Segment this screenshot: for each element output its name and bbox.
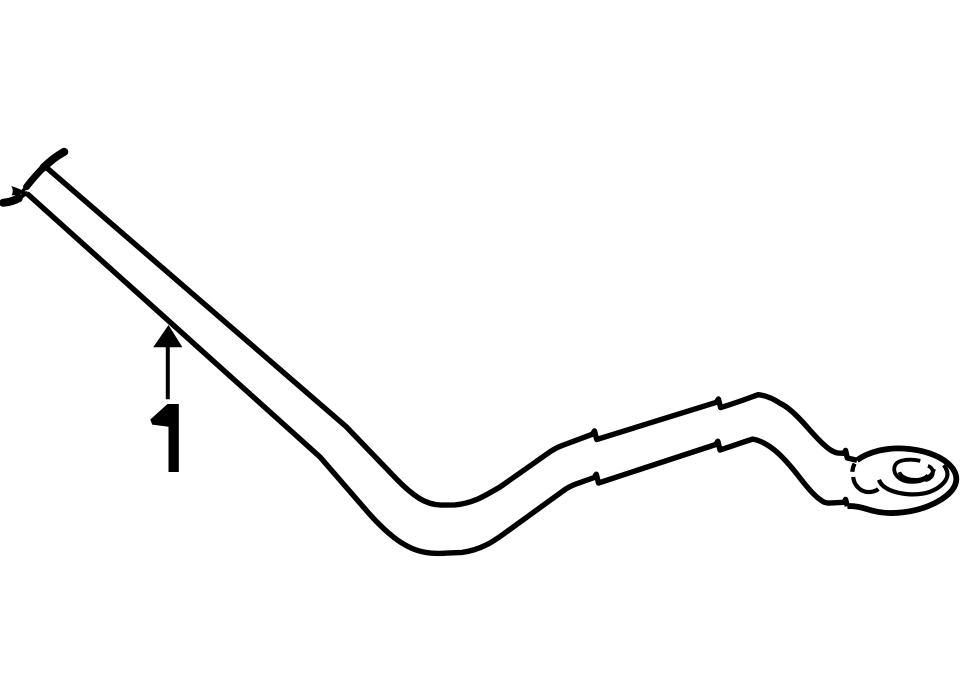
ring outer boundary xyxy=(847,448,956,513)
hole outer rim xyxy=(894,460,934,482)
arrow head xyxy=(153,325,182,347)
end break: upper crescent xyxy=(22,152,64,192)
hole inner lip arc xyxy=(899,472,928,480)
neck dash 2 / boss arc xyxy=(853,477,878,492)
end break: cusp wedge xyxy=(11,186,26,195)
neck dash 1 xyxy=(852,464,854,472)
tube upper edge xyxy=(46,167,857,505)
label 1 xyxy=(150,404,179,472)
tube lower edge xyxy=(27,194,847,554)
hole far-wall hook xyxy=(925,466,933,480)
arrow shaft xyxy=(166,347,170,399)
ring inner rim arc (washer bevel) xyxy=(879,465,947,494)
end break: lower crescent xyxy=(3,193,26,203)
